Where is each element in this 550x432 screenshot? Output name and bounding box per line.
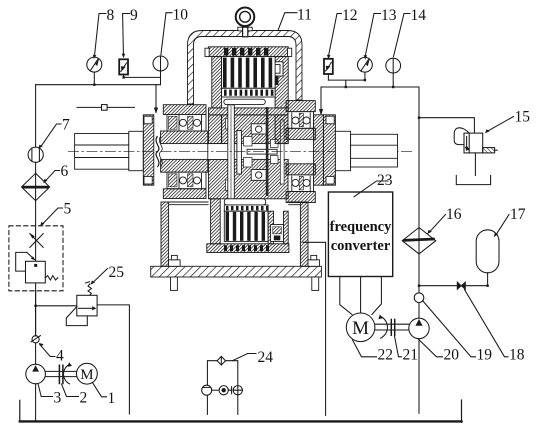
eyebolt ring (236, 7, 255, 26)
valve element in 5 (26, 261, 46, 283)
oil level gauge on machine (77, 106, 135, 108)
leader 4 (40, 344, 55, 356)
wire: main left supply line horizontal (36, 84, 161, 86)
big vertical disc (228, 105, 235, 199)
svg-text:23: 23 (377, 172, 393, 189)
wire: right supply horizontal (321, 86, 419, 88)
base bolts (169, 260, 181, 267)
upper disc stack (222, 57, 276, 89)
pressure gauge 13 (358, 57, 373, 72)
pump 20 (409, 318, 429, 338)
right bearing bottom cap (286, 192, 315, 203)
wire: junction to valve 18 (419, 285, 488, 287)
coupling 2 (59, 365, 63, 383)
wire: line 12 to 13 (328, 80, 365, 87)
throttle cross in 5 (30, 234, 43, 248)
sensor 12 (324, 59, 333, 74)
svg-text:7: 7 (62, 117, 70, 134)
leader 5 (43, 208, 63, 224)
svg-text:4: 4 (56, 348, 64, 365)
upper box cap teeth (224, 48, 268, 56)
leader 15 (487, 117, 513, 132)
svg-text:21: 21 (403, 347, 419, 364)
leader 1 (93, 383, 107, 397)
lower disc stack (224, 211, 268, 241)
svg-text:25: 25 (109, 264, 125, 281)
right sleeves (286, 128, 315, 139)
svg-text:12: 12 (342, 7, 358, 24)
hose loop 11 (188, 31, 303, 105)
shaft pump3-motor1 (45, 371, 76, 376)
pressure gauge 8 (93, 72, 95, 85)
accumulator 17 (476, 230, 499, 273)
wire: arrow drop into machine left inlet (155, 85, 157, 109)
svg-text:19: 19 (477, 347, 493, 364)
tank of 15 (456, 175, 490, 184)
upper flange band (209, 108, 289, 115)
filter 6 (22, 173, 50, 200)
leader 22 (353, 340, 377, 357)
leader 17 (496, 215, 509, 235)
leader 6 (46, 171, 60, 181)
shaft motor22-pump20 (375, 324, 409, 330)
wires converter to motor 22 (340, 277, 382, 315)
svg-text:1: 1 (108, 390, 116, 407)
svg-text:20: 20 (444, 347, 460, 364)
right lower bearing box (288, 175, 314, 192)
leader 8 (95, 14, 107, 56)
left bearing top cap (163, 105, 206, 115)
leader 21 (395, 336, 402, 357)
center lower bearing (251, 170, 266, 181)
left upper bearing box (167, 115, 206, 132)
svg-text:15: 15 (515, 109, 531, 126)
svg-text:3: 3 (54, 390, 62, 407)
pilot loop of 15 (454, 128, 469, 145)
right bearing top cap (286, 101, 315, 112)
svg-text:17: 17 (510, 206, 526, 223)
leader 2 (62, 384, 79, 397)
flow meter 7 (28, 147, 43, 162)
lower teeth row (224, 205, 268, 211)
left shaft end flange (237, 131, 242, 174)
base plate (151, 266, 322, 277)
right wall slot (280, 120, 284, 184)
pin bar (224, 99, 265, 104)
leader 23 (354, 181, 388, 197)
svg-text:22: 22 (378, 347, 394, 364)
svg-text:converter: converter (331, 238, 391, 254)
right shaft (351, 134, 398, 167)
svg-text:13: 13 (381, 7, 397, 24)
coupling 21 (391, 320, 394, 336)
svg-text:2: 2 (80, 390, 88, 407)
right housing outer band (314, 115, 324, 185)
motor letters (80, 318, 369, 383)
svg-text:5: 5 (64, 201, 72, 218)
shaft white band center (left shaft end) (208, 144, 237, 160)
valve 18 (457, 282, 465, 290)
left flange plate (143, 115, 154, 185)
svg-text:14: 14 (411, 7, 427, 24)
frequency converter 23 (328, 192, 392, 277)
filter 16 (402, 228, 436, 254)
valve 25 (36, 305, 77, 307)
upper box right wall (275, 57, 288, 108)
wire: right main vertical (418, 87, 420, 413)
lower right valve detail (271, 225, 284, 242)
center small details (244, 137, 253, 147)
leader 9 (123, 14, 130, 55)
leader 7 (41, 124, 61, 147)
valve 15 (464, 133, 483, 153)
leader 3 (38, 385, 52, 397)
check valve 4 (32, 336, 39, 343)
pump 3 (26, 364, 46, 384)
leader 16 (430, 215, 446, 232)
thermometer 10 (153, 56, 168, 71)
frequency converter text (330, 219, 393, 254)
lower casing (161, 202, 169, 266)
spline wave marks (156, 136, 159, 167)
central left wall below (209, 115, 222, 144)
upper box top cap (209, 47, 289, 57)
left shaft (75, 134, 129, 170)
rotation arrow at 21 (381, 316, 388, 338)
pilot box of 25 (66, 307, 87, 326)
left lower bearing box (167, 172, 206, 189)
leader 13 (365, 14, 380, 56)
motor 1 (77, 363, 98, 384)
test block 24 (207, 361, 237, 415)
upper right valve detail (269, 62, 284, 76)
center upper bearing (251, 124, 266, 134)
rotation arrow at 2 (63, 364, 69, 384)
eyebolt base (238, 27, 252, 31)
shaft centerline (68, 151, 412, 153)
leader 19 (423, 301, 476, 357)
svg-text:M: M (352, 318, 369, 339)
solenoid of 15 (483, 148, 495, 153)
spring of 5 (45, 276, 58, 280)
sensor 9 (119, 59, 128, 74)
wire: left main vertical line (35, 85, 37, 421)
svg-text:10: 10 (173, 7, 189, 24)
left lower sleeve (161, 159, 208, 172)
svg-text:18: 18 (509, 347, 525, 364)
svg-text:M: M (80, 367, 93, 383)
left bearing bottom cap (163, 189, 206, 199)
right wall below (275, 115, 288, 144)
wire: machine drain to tank (303, 242, 326, 415)
leader 24 (232, 354, 256, 361)
right upper bearing box (288, 112, 314, 129)
wire: 25 output to drain (97, 305, 129, 414)
leader 14 (394, 14, 411, 57)
feet (171, 277, 178, 290)
left upper sleeve (161, 131, 208, 144)
lower rail (207, 244, 289, 253)
svg-text:24: 24 (258, 349, 274, 366)
central hub (222, 115, 289, 144)
relief valve station 5 (dashed enclosure) (9, 226, 63, 291)
leader 11 (278, 13, 297, 31)
wire: line from 9 to 10 (124, 76, 161, 78)
lower column left wall (211, 199, 221, 244)
svg-text:9: 9 (130, 7, 138, 24)
wire: arrow drop into machine right inlet (320, 87, 322, 110)
motor 22 (346, 313, 375, 342)
wire: branch to valve 15 (419, 118, 474, 133)
right disc dark column (266, 107, 269, 196)
svg-text:8: 8 (107, 7, 115, 24)
left shaft sleeve (129, 131, 144, 170)
center web plate (247, 149, 277, 154)
upper box left wall (212, 57, 222, 108)
tank bottom line (20, 420, 462, 422)
circle 19 (414, 293, 424, 303)
svg-text:6: 6 (61, 163, 69, 180)
leader 10 (161, 13, 172, 55)
svg-text:frequency: frequency (330, 219, 393, 235)
svg-text:11: 11 (297, 7, 312, 24)
leader 25 (93, 269, 108, 283)
lower column right wall (268, 211, 273, 244)
right shaft sleeve (335, 131, 350, 170)
leader 12 (329, 14, 342, 56)
thermometer 14 (386, 58, 401, 73)
leader 20 (418, 339, 443, 357)
pilot loop in 5 (16, 252, 27, 271)
svg-text:16: 16 (446, 206, 462, 223)
upper stack lower teeth (222, 88, 276, 97)
lower pin bar (224, 199, 265, 205)
wire: 15 to tank (474, 153, 476, 176)
right flange plate (323, 115, 335, 185)
leader 18 (465, 290, 509, 357)
